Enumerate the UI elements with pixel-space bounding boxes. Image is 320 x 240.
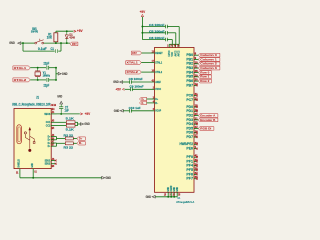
global label XTAL2 (mcu) xyxy=(126,70,142,74)
wire d+ join xyxy=(56,137,58,140)
wire xtal2 net xyxy=(30,79,46,81)
svg-text:PB3: PB3 xyxy=(186,66,193,70)
svg-text:C4 100nF: C4 100nF xyxy=(149,23,165,27)
resistor R1 10K xyxy=(54,33,58,42)
capacitor C5 100nF xyxy=(142,32,165,34)
global label Row 1 xyxy=(198,75,211,79)
svg-text:GND: GND xyxy=(62,72,68,76)
diode D1 1N4148 xyxy=(66,31,68,35)
mcu U1 ATmega32U4-A body xyxy=(155,48,195,193)
node reset-gnd junction xyxy=(22,42,24,44)
svg-text:ATmega32U4-A: ATmega32U4-A xyxy=(176,200,195,204)
global label D- (usb) xyxy=(77,142,86,145)
svg-text:GND: GND xyxy=(146,195,152,199)
global label D+ (mcu) xyxy=(140,97,147,100)
wire reset net left segment xyxy=(21,42,35,44)
power symbol GND (crystal) xyxy=(58,73,61,76)
svg-text:A1: A1 xyxy=(34,170,37,174)
svg-text:XTAL2: XTAL2 xyxy=(126,70,138,74)
svg-text:XTAL2: XTAL2 xyxy=(155,70,162,74)
global label Column 1 xyxy=(198,58,220,62)
svg-text:B5: B5 xyxy=(52,126,55,130)
svg-text:22pF: 22pF xyxy=(44,83,50,87)
svg-text:XTAL1: XTAL1 xyxy=(155,61,162,65)
svg-text:PF7: PF7 xyxy=(186,177,193,181)
svg-text:GND: GND xyxy=(114,109,120,113)
resistor R3 22R xyxy=(65,142,73,145)
wire cap3 to pin xyxy=(171,40,173,45)
svg-text:C9 100nF: C9 100nF xyxy=(130,84,144,88)
svg-text:10K: 10K xyxy=(47,36,53,40)
svg-text:S1: S1 xyxy=(16,170,19,174)
global label Encoder A xyxy=(198,114,218,118)
svg-text:5.1K: 5.1K xyxy=(66,127,75,131)
svg-text:PC7: PC7 xyxy=(186,98,193,102)
svg-text:Column 3: Column 3 xyxy=(200,66,217,70)
svg-text:+5V: +5V xyxy=(140,10,146,14)
svg-text:PB7: PB7 xyxy=(186,83,193,87)
svg-text:C8 100nF: C8 100nF xyxy=(129,77,143,81)
global label XTAL1 (mcu) xyxy=(126,61,142,65)
svg-text:GND: GND xyxy=(84,122,90,126)
capacitor C10 1uF xyxy=(123,110,129,112)
svg-text:A9 B9: A9 B9 xyxy=(51,104,57,107)
svg-text:RESET: RESET xyxy=(155,51,162,55)
capacitor C7 1uF xyxy=(60,109,62,114)
wire xtal2 to mcu xyxy=(141,71,154,73)
wire +5V top segment xyxy=(56,30,74,32)
svg-text:D-: D- xyxy=(48,144,51,148)
usb-c plug glyph xyxy=(17,125,21,144)
wire d- join xyxy=(56,143,58,146)
svg-text:16MHz: 16MHz xyxy=(43,74,51,78)
crystal Y1 16MHz xyxy=(37,68,39,71)
resistor R2 22R xyxy=(65,137,73,140)
svg-text:D-: D- xyxy=(142,101,145,105)
svg-text:+5V: +5V xyxy=(77,29,83,33)
svg-text:D-: D- xyxy=(79,141,82,145)
svg-text:USB_C_Receptacle_USB2.0_16P: USB_C_Receptacle_USB2.0_16P xyxy=(12,103,51,107)
svg-text:GND: GND xyxy=(106,176,112,180)
svg-text:UVCC: UVCC xyxy=(155,87,161,91)
resistor R5 5.1K xyxy=(66,124,75,127)
wire capacitor loop down-left xyxy=(22,43,24,51)
global label Row 2 xyxy=(198,79,211,83)
wire xtal1 to mcu xyxy=(141,62,154,64)
svg-text:SHIELD: SHIELD xyxy=(17,158,21,167)
power symbol +5V (vbus) xyxy=(80,113,82,115)
svg-text:GND: GND xyxy=(30,163,34,168)
svg-text:0.1uF: 0.1uF xyxy=(38,47,47,51)
wire cc join to gnd xyxy=(77,122,79,125)
wire cap1 to pin xyxy=(178,27,180,45)
svg-text:AVCC: AVCC xyxy=(177,51,181,57)
resistor R4 5.1K xyxy=(66,121,75,124)
svg-text:RST: RST xyxy=(132,51,137,55)
power symbol GND (vbus cap) xyxy=(60,101,63,104)
wire mcu gnd pins xyxy=(167,192,169,197)
svg-text:C1: C1 xyxy=(51,47,54,51)
usb trident glyph xyxy=(25,130,34,149)
wire +5V rail vertical xyxy=(141,17,143,40)
node diode-top junction xyxy=(66,30,68,32)
svg-text:GND: GND xyxy=(57,95,62,99)
svg-text:22pF: 22pF xyxy=(44,61,50,65)
power symbol GND (usb shield) xyxy=(102,177,105,180)
svg-text:PD7: PD7 xyxy=(186,135,193,139)
svg-text:XTAL1: XTAL1 xyxy=(126,60,138,64)
svg-text:SBU2: SBU2 xyxy=(45,162,51,166)
wire vcc pins header xyxy=(169,43,179,45)
svg-text:D+: D+ xyxy=(79,136,83,140)
wire cap2 to pin xyxy=(175,33,177,45)
svg-text:AREF: AREF xyxy=(155,80,161,84)
capacitor C4 100nF xyxy=(142,26,165,28)
wire xtal1 net xyxy=(30,67,46,69)
svg-text:RGB DI: RGB DI xyxy=(200,126,211,130)
svg-text:D-: D- xyxy=(155,101,158,105)
node diode-bottom junction xyxy=(66,42,68,44)
svg-text:Row 2: Row 2 xyxy=(200,79,209,83)
svg-text:Encoder B: Encoder B xyxy=(200,118,215,122)
global label Column 2 xyxy=(198,62,220,66)
global label Column 3 xyxy=(198,66,220,70)
svg-text:GND: GND xyxy=(175,187,179,192)
wire capacitor loop right-up xyxy=(58,50,61,52)
global label D- (mcu) xyxy=(140,101,147,104)
capacitor C8 100nF xyxy=(123,81,130,83)
svg-text:C10 1uF: C10 1uF xyxy=(129,106,141,110)
power symbol GND (cc) xyxy=(81,123,84,126)
global label Column 0 xyxy=(198,53,220,57)
capacitor C6 100nF xyxy=(142,39,165,41)
global label RGB DI xyxy=(198,127,214,131)
global label RST xyxy=(70,42,78,46)
global label D+ (usb) xyxy=(77,137,86,140)
svg-text:+5V: +5V xyxy=(116,87,122,91)
svg-text:UCAP: UCAP xyxy=(155,109,161,113)
svg-text:R3 22: R3 22 xyxy=(64,146,74,150)
svg-text:XTAL1: XTAL1 xyxy=(14,66,27,70)
svg-text:5.1K: 5.1K xyxy=(66,117,75,121)
svg-text:C5 100nF: C5 100nF xyxy=(149,30,165,34)
svg-text:+5V: +5V xyxy=(85,112,91,116)
capacitor C9 100nF xyxy=(125,88,131,90)
wire usb gnd net xyxy=(20,177,102,179)
svg-text:C6 100nF: C6 100nF xyxy=(149,36,165,40)
global label Encoder B xyxy=(198,118,218,122)
svg-text:RST: RST xyxy=(72,42,77,46)
node cap-loop junction xyxy=(60,42,62,44)
svg-text:XTAL2: XTAL2 xyxy=(14,78,27,82)
global label XTAL1 xyxy=(13,66,30,70)
svg-text:PE6: PE6 xyxy=(186,147,193,151)
svg-text:1uF: 1uF xyxy=(65,108,69,112)
wire reset net middle segment xyxy=(44,42,70,44)
svg-text:GND: GND xyxy=(113,80,119,84)
svg-text:4148: 4148 xyxy=(69,36,75,40)
wire crystal gnd join xyxy=(55,68,57,80)
svg-text:B8: B8 xyxy=(52,164,55,168)
wire VBUS net xyxy=(57,113,80,115)
svg-text:R2 22: R2 22 xyxy=(64,133,74,137)
svg-text:GND: GND xyxy=(9,41,15,45)
capacitor C1 0.1uF xyxy=(55,49,57,53)
svg-text:SW-PB: SW-PB xyxy=(31,30,39,34)
wire rst to mcu xyxy=(142,52,155,54)
global label Row 0 xyxy=(198,71,211,75)
svg-text:CC2: CC2 xyxy=(46,124,51,128)
global label RST (mcu) xyxy=(131,51,141,55)
capacitor C3 22pF xyxy=(46,78,48,82)
svg-text:J1: J1 xyxy=(36,95,39,99)
global label XTAL2 xyxy=(13,78,30,82)
capacitor C2 22pF xyxy=(46,66,48,70)
node resistor-bottom junction xyxy=(55,42,57,44)
power symbol +5V (reset pullup) xyxy=(74,30,76,32)
svg-text:VBUS: VBUS xyxy=(44,112,50,116)
